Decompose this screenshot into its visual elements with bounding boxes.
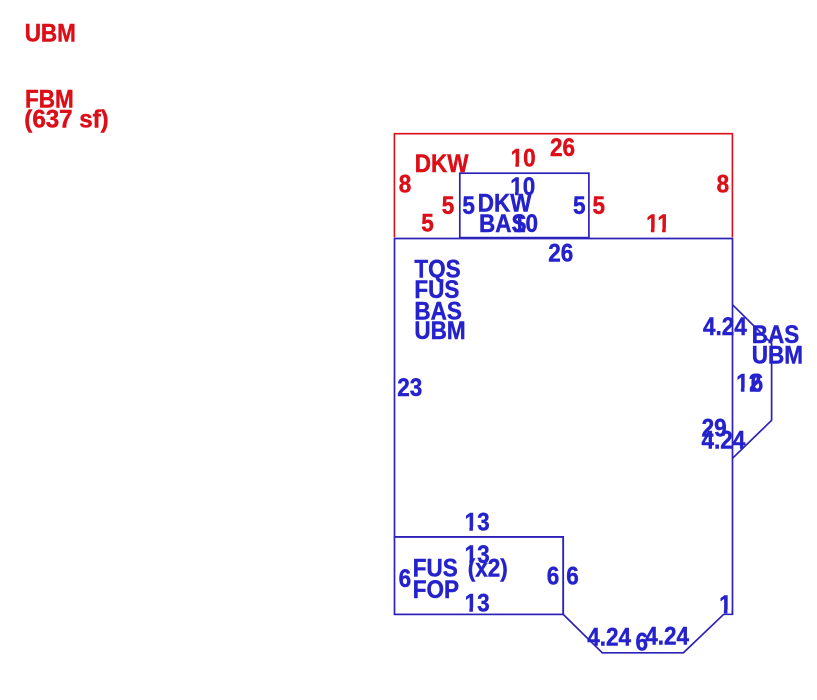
svg-text:FOP: FOP xyxy=(413,576,459,604)
svg-text:4.24: 4.24 xyxy=(703,313,748,341)
svg-text:(637 sf): (637 sf) xyxy=(24,106,108,133)
svg-text:5: 5 xyxy=(593,192,606,220)
svg-text:5: 5 xyxy=(421,209,434,237)
svg-text:UBM: UBM xyxy=(25,20,76,48)
main blue outline TQS/FUS/BAS/UBM xyxy=(395,239,733,653)
blue bump outline BAS/UBM right xyxy=(733,305,772,459)
svg-text:6: 6 xyxy=(547,562,560,590)
svg-text:13: 13 xyxy=(465,590,490,618)
svg-text:6: 6 xyxy=(566,562,579,590)
svg-text:10: 10 xyxy=(511,144,536,172)
svg-text:6: 6 xyxy=(399,565,412,593)
svg-text:DKW: DKW xyxy=(415,150,469,178)
svg-text:8: 8 xyxy=(399,170,412,198)
svg-text:11: 11 xyxy=(646,210,670,238)
blue rect FUS(x2)/FOP xyxy=(395,537,564,615)
svg-text:26: 26 xyxy=(550,134,575,162)
blue rect DKW/BAS xyxy=(460,173,589,237)
svg-text:UBM: UBM xyxy=(752,342,803,370)
svg-text:8: 8 xyxy=(717,170,730,198)
svg-text:23: 23 xyxy=(397,374,422,402)
svg-text:UBM: UBM xyxy=(414,317,465,345)
svg-text:4.24: 4.24 xyxy=(587,623,632,651)
svg-text:5: 5 xyxy=(573,192,586,220)
svg-text:1: 1 xyxy=(719,591,732,619)
svg-text:6: 6 xyxy=(751,370,764,398)
svg-text:4.24: 4.24 xyxy=(702,427,747,455)
svg-text:13: 13 xyxy=(465,508,490,536)
svg-text:26: 26 xyxy=(548,239,573,267)
svg-text:5: 5 xyxy=(462,192,475,220)
svg-text:4.24: 4.24 xyxy=(645,623,690,651)
red outline FBM area xyxy=(394,134,732,238)
svg-text:(x2): (x2) xyxy=(468,555,508,583)
svg-text:5: 5 xyxy=(442,192,455,220)
svg-text:10: 10 xyxy=(513,210,538,238)
